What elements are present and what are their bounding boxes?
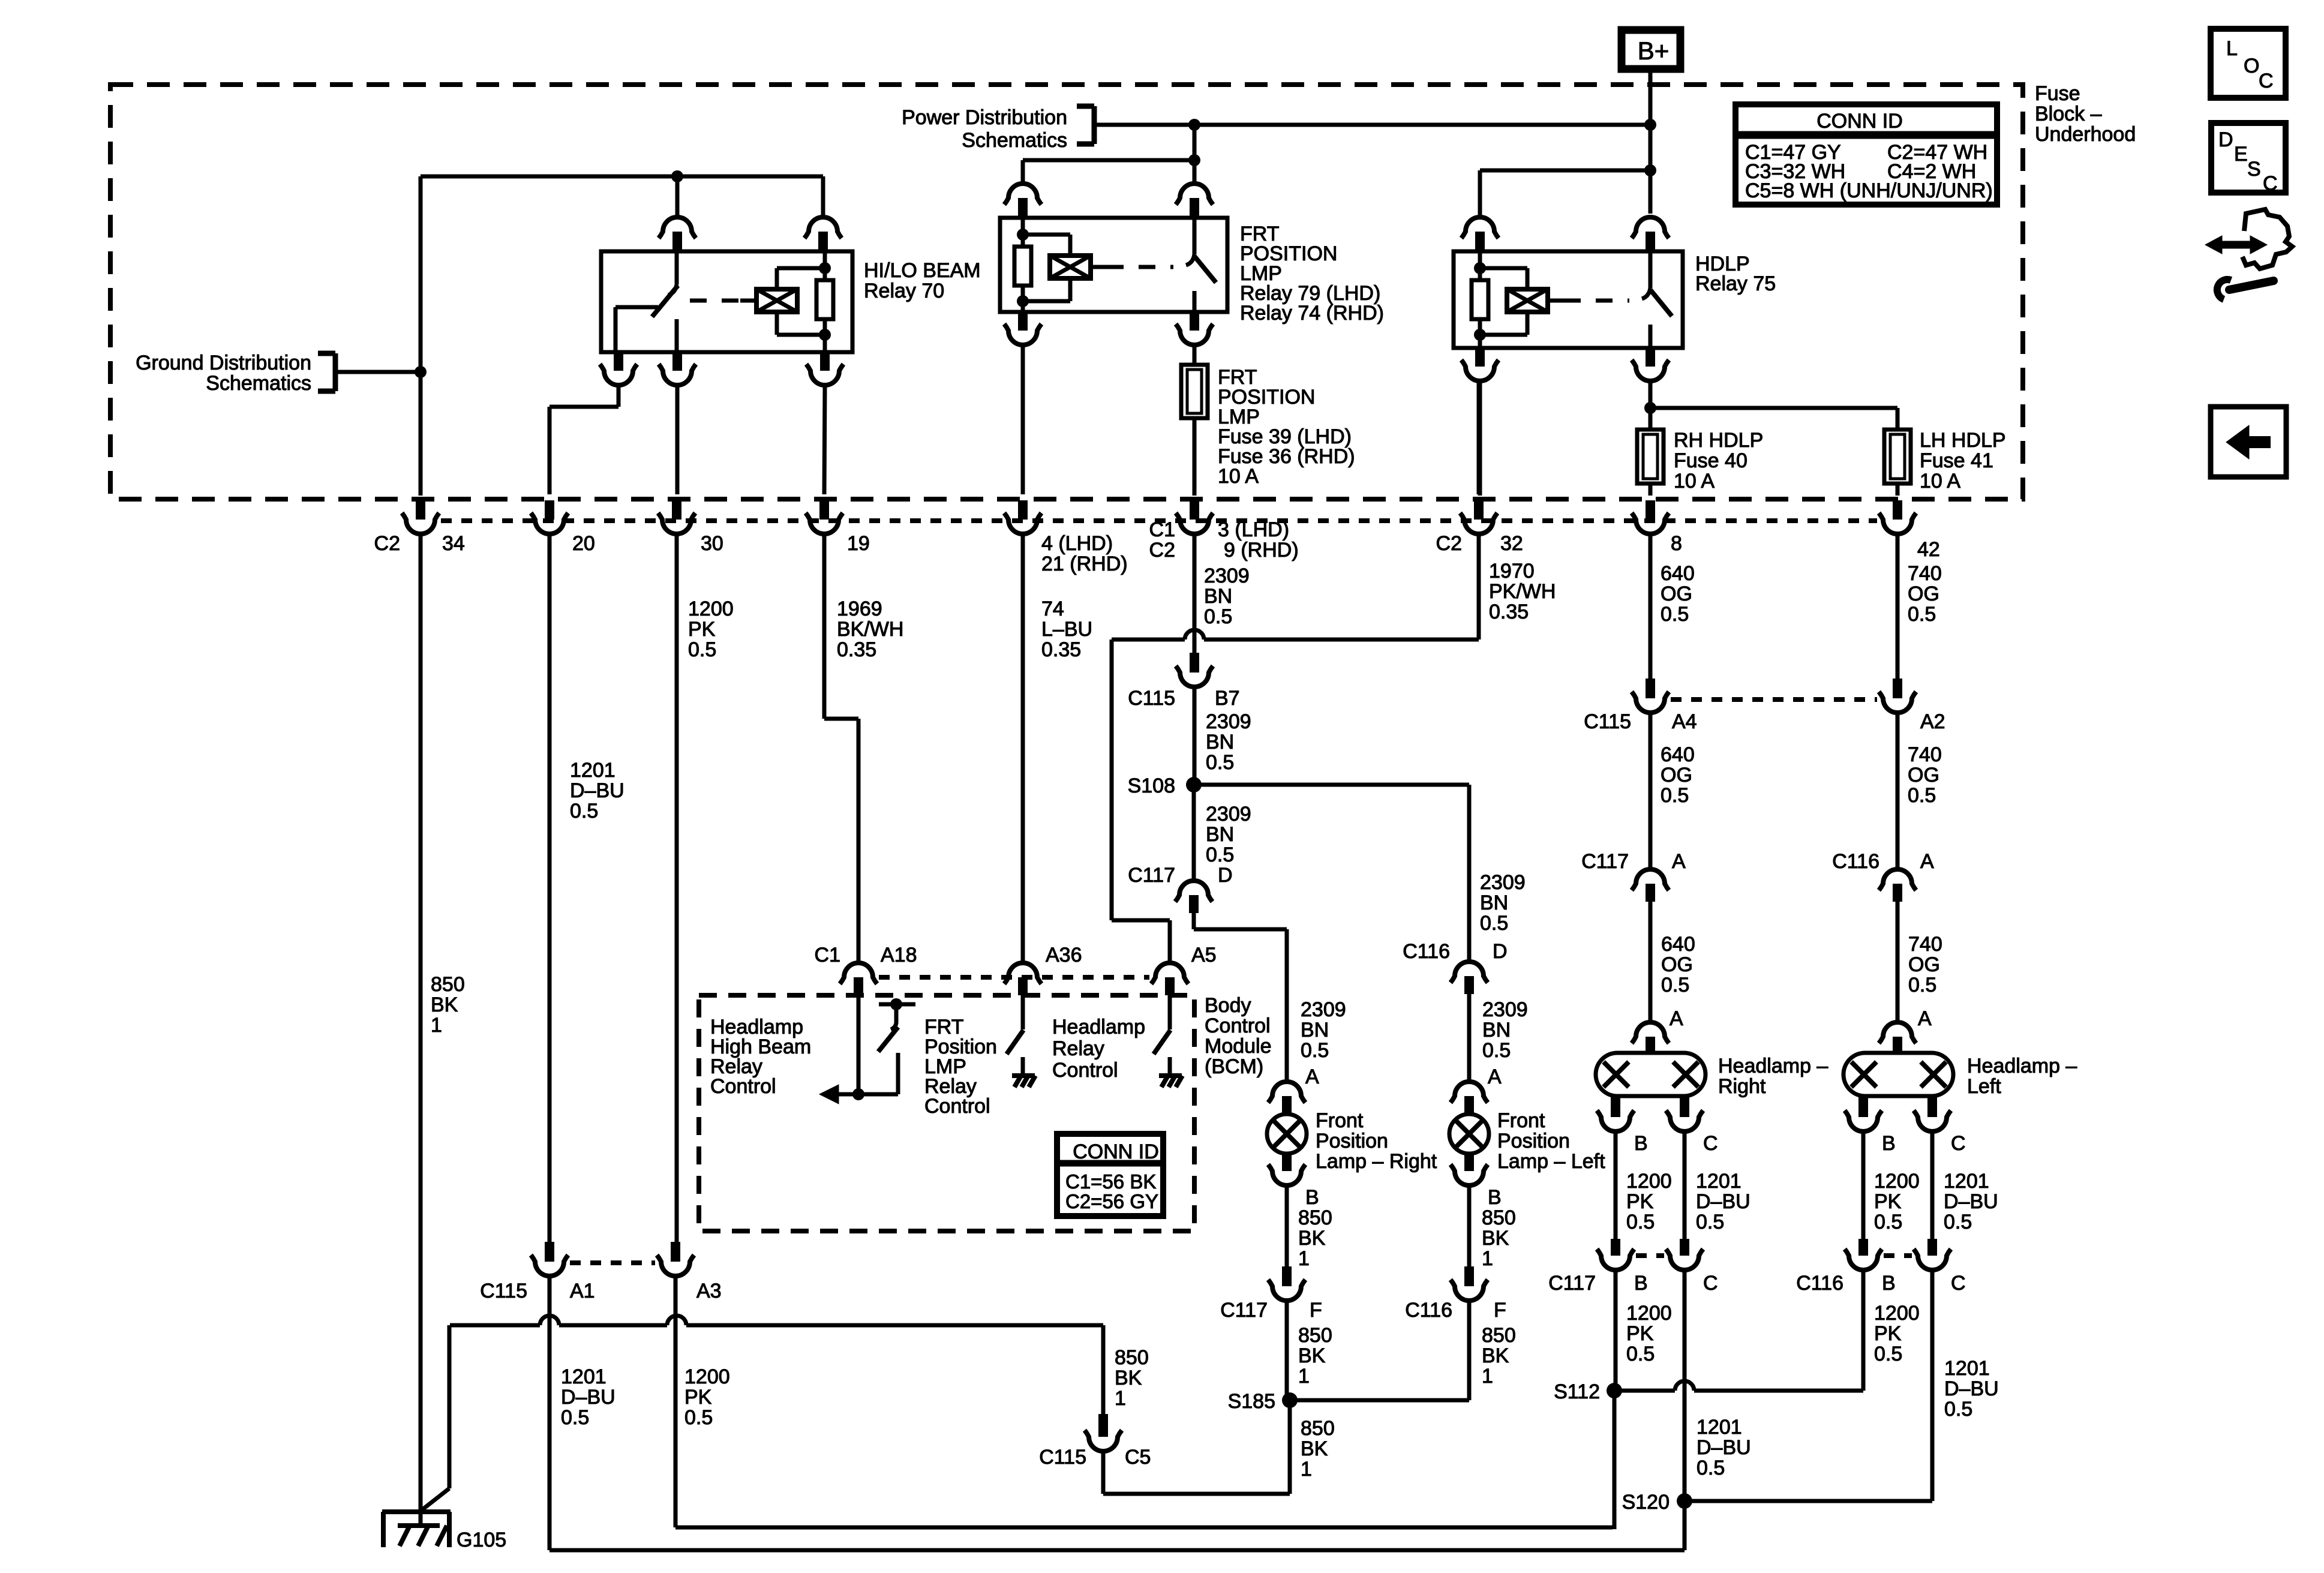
svg-text:CONN ID: CONN ID [1816,110,1903,133]
svg-text:D–BU: D–BU [1696,1190,1750,1213]
svg-text:Ground Distribution: Ground Distribution [136,352,311,374]
svg-text:Control: Control [710,1075,776,1098]
svg-text:C2: C2 [1149,539,1175,562]
svg-text:B: B [1882,1132,1896,1155]
svg-text:LH HDLP: LH HDLP [1920,429,2006,452]
svg-text:Lamp – Right: Lamp – Right [1316,1150,1437,1173]
svg-text:D: D [2218,128,2233,151]
svg-text:D–BU: D–BU [561,1386,615,1409]
svg-text:1201: 1201 [561,1365,606,1388]
svg-text:C116: C116 [1832,850,1879,873]
svg-text:C2=56 GY: C2=56 GY [1065,1190,1158,1212]
svg-text:B: B [1882,1272,1896,1295]
svg-text:1: 1 [1298,1247,1310,1270]
svg-text:A: A [1670,1007,1683,1030]
svg-text:3 (LHD): 3 (LHD) [1218,518,1289,541]
svg-text:19: 19 [847,532,870,555]
svg-text:C117: C117 [1220,1299,1268,1322]
svg-text:S108: S108 [1128,775,1175,797]
svg-text:B+: B+ [1638,37,1670,65]
svg-text:OG: OG [1908,953,1940,976]
svg-text:OG: OG [1908,764,1939,786]
svg-text:42: 42 [1917,538,1940,561]
svg-text:0.5: 0.5 [1908,784,1936,807]
svg-text:C1: C1 [815,944,840,966]
svg-text:Control: Control [1205,1014,1271,1037]
svg-text:0.5: 0.5 [684,1406,713,1429]
svg-text:(BCM): (BCM) [1205,1055,1263,1078]
svg-text:C5: C5 [1125,1446,1151,1469]
svg-text:PK: PK [1874,1322,1902,1345]
svg-text:BK: BK [1482,1227,1509,1250]
svg-text:740: 740 [1908,933,1942,956]
svg-text:1200: 1200 [684,1365,730,1388]
svg-text:Left: Left [1967,1075,2001,1098]
svg-text:C1: C1 [1149,518,1175,541]
svg-text:BN: BN [1301,1019,1329,1041]
svg-text:0.5: 0.5 [1206,843,1234,866]
svg-text:Relay 74 (RHD): Relay 74 (RHD) [1240,302,1384,325]
svg-text:A2: A2 [1920,710,1945,733]
svg-text:HI/LO BEAM: HI/LO BEAM [864,259,981,282]
svg-text:0.5: 0.5 [1480,912,1508,935]
svg-text:640: 640 [1661,933,1695,956]
svg-text:A: A [1918,1007,1932,1030]
svg-text:0.5: 0.5 [1204,605,1232,628]
svg-text:CONN ID: CONN ID [1073,1140,1159,1163]
svg-text:F: F [1494,1299,1506,1322]
svg-text:0.5: 0.5 [1626,1211,1655,1233]
svg-text:Fuse 41: Fuse 41 [1920,449,1993,472]
svg-text:G105: G105 [457,1529,506,1551]
svg-text:Body: Body [1205,994,1251,1017]
svg-text:B: B [1634,1132,1648,1155]
svg-text:Schematics: Schematics [206,372,311,395]
svg-text:740: 740 [1908,562,1942,585]
svg-text:0.35: 0.35 [1041,638,1081,661]
svg-text:4 (LHD): 4 (LHD) [1041,532,1113,555]
svg-text:S185: S185 [1228,1390,1275,1413]
svg-text:0.5: 0.5 [570,800,598,822]
svg-text:0.35: 0.35 [1489,601,1529,623]
svg-text:0.5: 0.5 [1874,1343,1902,1365]
svg-text:Fuse 40: Fuse 40 [1674,449,1747,472]
svg-text:A: A [1305,1065,1319,1088]
svg-text:850: 850 [1115,1346,1149,1369]
svg-text:1: 1 [1482,1365,1493,1388]
svg-text:OG: OG [1661,764,1692,786]
svg-text:A: A [1920,850,1934,873]
svg-text:1970: 1970 [1489,560,1535,583]
svg-text:2309: 2309 [1206,803,1251,825]
svg-text:1: 1 [1301,1458,1312,1481]
svg-text:1: 1 [1482,1247,1493,1270]
svg-text:A: A [1672,850,1686,873]
svg-text:1: 1 [1115,1387,1126,1410]
svg-text:1200: 1200 [1626,1302,1672,1325]
svg-text:0.5: 0.5 [1944,1211,1972,1233]
svg-text:0.5: 0.5 [1661,784,1689,807]
svg-text:PK: PK [1626,1322,1654,1345]
svg-text:B: B [1305,1186,1319,1209]
svg-text:C115: C115 [1128,687,1175,710]
svg-text:D–BU: D–BU [1944,1377,1999,1400]
svg-text:C: C [2259,70,2274,92]
svg-text:PK: PK [1626,1190,1654,1213]
svg-text:640: 640 [1661,562,1695,585]
svg-text:BK: BK [1301,1437,1328,1460]
svg-text:2309: 2309 [1480,871,1526,894]
svg-text:Schematics: Schematics [962,129,1067,152]
svg-text:850: 850 [431,973,465,996]
svg-text:C: C [1703,1272,1718,1295]
svg-text:0.5: 0.5 [1908,603,1936,626]
svg-text:S120: S120 [1622,1491,1670,1514]
svg-text:C2: C2 [374,532,400,555]
svg-text:Control: Control [924,1095,990,1118]
svg-text:2309: 2309 [1204,565,1250,587]
svg-text:32: 32 [1500,532,1523,555]
svg-text:B: B [1634,1272,1648,1295]
svg-text:D–BU: D–BU [1697,1436,1751,1459]
svg-text:9 (RHD): 9 (RHD) [1224,539,1299,562]
svg-text:BK: BK [431,993,458,1016]
svg-text:C115: C115 [1039,1446,1086,1469]
svg-text:O: O [2244,55,2259,77]
svg-text:RH HDLP: RH HDLP [1674,429,1763,452]
svg-text:0.5: 0.5 [1626,1343,1655,1365]
svg-text:Control: Control [1052,1059,1118,1082]
svg-text:Headlamp –: Headlamp – [1718,1055,1828,1077]
svg-text:S112: S112 [1554,1380,1600,1403]
svg-text:A3: A3 [696,1280,722,1302]
svg-text:BN: BN [1480,891,1508,914]
svg-text:C1=56 BK: C1=56 BK [1065,1170,1156,1193]
svg-text:PK: PK [1874,1190,1902,1213]
svg-text:BN: BN [1204,585,1232,608]
svg-text:1969: 1969 [837,598,882,620]
svg-text:Relay: Relay [1052,1037,1104,1060]
svg-text:D–BU: D–BU [570,779,624,802]
svg-text:2309: 2309 [1301,998,1346,1021]
svg-text:Relay 75: Relay 75 [1695,272,1776,295]
svg-text:S: S [2247,158,2261,181]
svg-text:BK: BK [1298,1344,1326,1367]
svg-text:1201: 1201 [1944,1170,1989,1193]
svg-text:1201: 1201 [1944,1357,1990,1380]
svg-text:A36: A36 [1046,944,1082,966]
svg-text:Block –: Block – [2035,103,2102,125]
svg-text:0.5: 0.5 [688,638,716,661]
svg-text:850: 850 [1298,1324,1332,1347]
svg-text:1200: 1200 [1874,1302,1920,1325]
svg-text:640: 640 [1661,743,1695,766]
svg-text:B7: B7 [1215,687,1240,710]
svg-text:B: B [1488,1186,1502,1209]
svg-text:2309: 2309 [1482,998,1528,1021]
svg-text:A4: A4 [1672,710,1697,733]
svg-text:Module: Module [1205,1035,1272,1058]
svg-text:1200: 1200 [1626,1170,1672,1193]
svg-text:Relay 70: Relay 70 [864,280,944,302]
svg-text:0.5: 0.5 [1874,1211,1902,1233]
svg-text:34: 34 [442,532,465,555]
svg-text:C: C [1951,1132,1966,1155]
svg-text:10 A: 10 A [1218,465,1259,488]
svg-text:30: 30 [701,532,723,555]
svg-text:0.5: 0.5 [1661,974,1689,996]
svg-text:850: 850 [1482,1206,1516,1229]
svg-text:850: 850 [1301,1417,1335,1440]
svg-text:1201: 1201 [1697,1416,1742,1439]
svg-text:BK/WH: BK/WH [837,618,903,641]
svg-text:C117: C117 [1548,1272,1596,1295]
svg-text:10 A: 10 A [1674,470,1715,493]
svg-text:Right: Right [1718,1075,1766,1098]
svg-text:0.5: 0.5 [1908,974,1936,996]
svg-text:A5: A5 [1191,944,1217,966]
svg-text:Power Distribution: Power Distribution [902,106,1067,129]
svg-text:0.5: 0.5 [1944,1398,1972,1421]
svg-text:A1: A1 [570,1280,595,1302]
svg-text:C: C [1703,1132,1718,1155]
svg-text:0.5: 0.5 [1697,1457,1725,1479]
svg-text:0.5: 0.5 [1206,751,1234,774]
svg-text:1201: 1201 [570,759,615,782]
svg-text:BK: BK [1298,1227,1326,1250]
svg-text:0.5: 0.5 [1696,1211,1724,1233]
svg-text:F: F [1310,1299,1322,1322]
svg-text:C117: C117 [1128,864,1175,887]
svg-text:21 (RHD): 21 (RHD) [1041,553,1128,575]
svg-text:BK: BK [1115,1367,1142,1389]
svg-text:D–BU: D–BU [1944,1190,1998,1213]
svg-text:E: E [2234,143,2248,166]
svg-text:A18: A18 [881,944,917,966]
svg-text:20: 20 [572,532,595,555]
svg-text:Position: Position [1497,1130,1570,1152]
svg-text:C116: C116 [1403,940,1450,963]
svg-text:C115: C115 [1584,710,1631,733]
svg-text:Front: Front [1497,1109,1545,1132]
svg-text:0.35: 0.35 [837,638,876,661]
svg-text:D: D [1493,940,1508,963]
svg-text:740: 740 [1908,743,1942,766]
svg-text:C5=8 WH (UNH/UNJ/UNR): C5=8 WH (UNH/UNJ/UNR) [1745,179,1993,202]
svg-text:0.5: 0.5 [561,1406,589,1429]
svg-text:PK: PK [684,1386,712,1409]
svg-text:74: 74 [1041,598,1064,620]
svg-text:C: C [1951,1272,1966,1295]
svg-text:0.5: 0.5 [1661,603,1689,626]
svg-text:C115: C115 [480,1280,527,1302]
svg-text:2309: 2309 [1206,710,1251,733]
svg-text:1201: 1201 [1696,1170,1742,1193]
svg-text:C: C [2263,172,2278,195]
svg-text:1200: 1200 [1874,1170,1920,1193]
svg-text:8: 8 [1671,532,1682,555]
svg-text:Position: Position [1316,1130,1388,1152]
svg-text:0.5: 0.5 [1301,1039,1329,1062]
svg-text:Headlamp: Headlamp [1052,1016,1145,1038]
svg-text:C116: C116 [1796,1272,1843,1295]
svg-text:OG: OG [1661,583,1692,605]
svg-text:850: 850 [1482,1324,1516,1347]
svg-text:850: 850 [1298,1206,1332,1229]
svg-text:C2: C2 [1436,532,1462,555]
svg-text:C116: C116 [1405,1299,1452,1322]
svg-text:C117: C117 [1581,850,1629,873]
svg-text:Lamp – Left: Lamp – Left [1497,1150,1605,1173]
svg-text:A: A [1488,1065,1502,1088]
svg-text:BN: BN [1206,731,1234,754]
svg-text:BK: BK [1482,1344,1509,1367]
svg-text:OG: OG [1661,953,1693,976]
svg-text:PK: PK [688,618,716,641]
svg-text:L: L [2226,37,2238,60]
svg-text:Fuse: Fuse [2035,82,2080,105]
svg-text:Front: Front [1316,1109,1364,1132]
svg-text:10 A: 10 A [1920,470,1960,493]
svg-text:1: 1 [1298,1365,1310,1388]
svg-text:OG: OG [1908,583,1939,605]
svg-text:BN: BN [1482,1019,1511,1041]
svg-text:PK/WH: PK/WH [1489,580,1556,603]
svg-text:Underhood: Underhood [2035,123,2136,146]
svg-text:D: D [1218,864,1233,887]
svg-text:1: 1 [431,1014,442,1037]
svg-text:L–BU: L–BU [1041,618,1092,641]
svg-text:1200: 1200 [688,598,734,620]
svg-text:BN: BN [1206,823,1234,846]
svg-text:0.5: 0.5 [1482,1039,1511,1062]
svg-text:Headlamp –: Headlamp – [1967,1055,2077,1077]
